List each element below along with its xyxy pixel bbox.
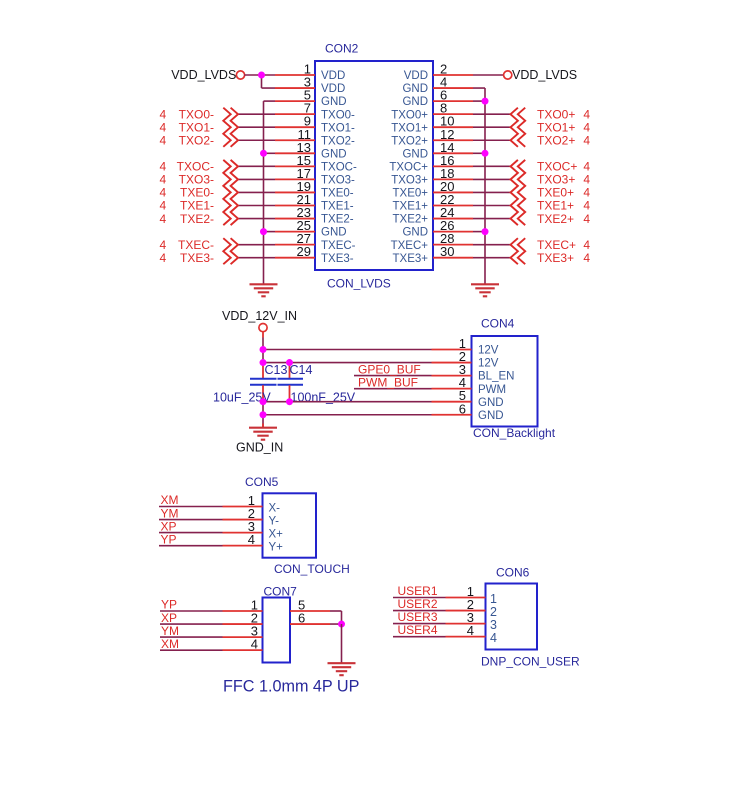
pin 14 (GND) of CON2, right stub: [402, 140, 473, 161]
pin 29 (TXE3-) of CON2, left stub: [275, 244, 354, 265]
svg-text:PWM: PWM: [478, 384, 506, 396]
wire GND bus left to pin 13: [264, 152, 276, 154]
junction GND bus right at pin 14: [482, 150, 489, 157]
svg-text:USER4: USER4: [398, 623, 438, 637]
svg-text:XM: XM: [161, 493, 179, 507]
svg-text:PWM_BUF: PWM_BUF: [358, 375, 418, 389]
connector CON2 body: [315, 61, 433, 270]
svg-text:TXO2-: TXO2-: [321, 135, 355, 147]
pin 4 of CON7: [223, 637, 263, 652]
wire net XP to CON5 pin 3: [159, 532, 223, 534]
svg-text:4: 4: [248, 532, 255, 547]
svg-text:TXE2-: TXE2-: [321, 214, 354, 226]
wire net YM to CON7 pin 3: [160, 636, 223, 638]
wire CON7 pin 5 elbow to pin 6: [330, 611, 342, 624]
pin 2 (VDD) of CON2, right stub: [404, 62, 473, 83]
wire GND bus right (pins 4,6,14,26): [473, 88, 485, 284]
pin 3 (BL_EN) of CON4: [432, 362, 515, 383]
wire GND to CON4 pin 5: [263, 401, 432, 403]
net label TXEC+ with sheet number 4: [537, 238, 590, 252]
pin 2 (12V) of CON4: [432, 349, 499, 370]
svg-text:USER2: USER2: [398, 597, 438, 611]
svg-text:TXE2-: TXE2-: [180, 212, 214, 226]
svg-text:4: 4: [160, 251, 167, 265]
junction GND bus left at pin 13: [260, 150, 267, 157]
connector CON7 body: [263, 598, 291, 663]
svg-text:2: 2: [490, 605, 497, 619]
pin 9 (TXO1-) of CON2, left stub: [275, 114, 355, 135]
pin 10 (TXO1+) of CON2, right stub: [391, 114, 473, 135]
svg-text:CON_Backlight: CON_Backlight: [473, 426, 556, 440]
pin 12 (TXO2+) of CON2, right stub: [391, 127, 473, 148]
power port VDD_LVDS (right): [504, 68, 577, 82]
wire net TXEC- to CON2: [238, 244, 275, 246]
wire net YP to CON5 pin 4: [159, 545, 223, 547]
svg-text:TXE2+: TXE2+: [393, 214, 429, 226]
wire net TXO3- to CON2: [238, 178, 275, 180]
net label TXO3+ with sheet number 4: [537, 173, 590, 187]
svg-text:TXE0+: TXE0+: [537, 186, 574, 200]
svg-text:Y+: Y+: [269, 542, 284, 554]
off-page chevron port group TXOC+..TXE2+: [511, 160, 518, 225]
wire net USER3 to CON6 pin 3: [393, 623, 446, 625]
off-page chevron port group TXO0+/TXO1+/TXO2+: [511, 108, 518, 147]
pin 2 of CON7: [223, 611, 263, 626]
pin 6 (GND) of CON2, right stub: [402, 88, 473, 109]
svg-text:TXO0+: TXO0+: [391, 109, 428, 121]
svg-text:VDD: VDD: [321, 83, 345, 95]
wire 12V to CON4 pin 2: [263, 362, 432, 364]
junction GND bus right at pin 6: [482, 98, 489, 105]
svg-text:TXOC+: TXOC+: [389, 161, 428, 173]
power port VDD_LVDS (left): [171, 68, 244, 82]
svg-text:4: 4: [583, 133, 590, 147]
pin 6 of CON7: [290, 611, 330, 626]
svg-text:GND_IN: GND_IN: [236, 441, 283, 455]
pin 5 (GND) of CON4: [432, 388, 504, 409]
pin 4 (PWM) of CON4: [432, 375, 507, 396]
ground symbol CON7: [328, 663, 356, 675]
svg-text:4: 4: [160, 107, 167, 121]
pin 30 (TXE3+) of CON2, right stub: [393, 244, 473, 265]
pin 1 of CON7: [223, 598, 263, 613]
svg-text:TXO1-: TXO1-: [179, 120, 214, 134]
wire net TXOC+ to CON2: [473, 165, 511, 167]
svg-text:GND: GND: [478, 410, 504, 422]
wire net XP to CON7 pin 2: [160, 623, 223, 625]
wire elbow VDD_LVDS to CON2 pin 3: [262, 75, 276, 88]
svg-text:TXO0-: TXO0-: [179, 107, 214, 121]
wire GND bus left (pins 5,13,25): [264, 101, 276, 284]
svg-text:4: 4: [583, 238, 590, 252]
net label TXE3+ with sheet number 4: [537, 251, 590, 265]
svg-text:4: 4: [251, 637, 258, 652]
svg-text:4: 4: [490, 631, 497, 645]
svg-text:TXE2+: TXE2+: [537, 212, 574, 226]
svg-text:4: 4: [583, 160, 590, 174]
connector CON4 body: [472, 336, 538, 427]
svg-text:TXE1-: TXE1-: [180, 199, 214, 213]
pin 1 (X-) of CON5: [223, 493, 281, 515]
svg-text:TXE0-: TXE0-: [321, 188, 354, 200]
junction node VDD_LVDS left: [258, 72, 265, 79]
wire net TXO2- to CON2: [238, 139, 275, 141]
svg-text:YM: YM: [161, 506, 179, 520]
svg-text:TXO0-: TXO0-: [321, 109, 355, 121]
svg-text:CON5: CON5: [245, 475, 279, 489]
svg-text:4: 4: [160, 238, 167, 252]
svg-text:4: 4: [583, 173, 590, 187]
svg-text:VDD_LVDS: VDD_LVDS: [512, 68, 577, 82]
svg-text:VDD_LVDS: VDD_LVDS: [171, 68, 236, 82]
svg-text:GND: GND: [402, 148, 428, 160]
net label TXE2- with sheet number 4: [160, 212, 215, 226]
wire net TXO2+ to CON2: [473, 139, 511, 141]
svg-text:12V: 12V: [478, 345, 499, 357]
wire net TXE3+ to CON2: [473, 257, 511, 259]
wire CON7 junction to ground: [341, 624, 343, 663]
net label TXO1+ with sheet number 4: [537, 120, 590, 134]
svg-text:4: 4: [583, 186, 590, 200]
svg-text:GPE0_BUF: GPE0_BUF: [358, 362, 421, 376]
svg-text:TXO2-: TXO2-: [179, 133, 214, 147]
pin 18 (TXO3+) of CON2, right stub: [391, 166, 473, 187]
pin 8 (TXO0+) of CON2, right stub: [391, 101, 473, 122]
connector CON5 body: [263, 493, 317, 557]
net label TXO0+ with sheet number 4: [537, 107, 590, 121]
wire net YP to CON7 pin 1: [160, 610, 223, 612]
wire VDD_LVDS to CON2 pin 1: [244, 74, 275, 76]
junction GND bus pin5 row: [260, 398, 267, 405]
net label TXOC+ with sheet number 4: [537, 160, 590, 174]
wire net PWM_BUF to CON4 pin 4: [354, 388, 432, 390]
junction C14 top: [286, 359, 293, 366]
svg-text:4: 4: [583, 120, 590, 134]
svg-text:TXO1-: TXO1-: [321, 122, 355, 134]
wire 12V to CON4 pin 1: [263, 349, 432, 351]
wire net TXE2- to CON2: [238, 218, 275, 220]
svg-text:C14: C14: [290, 363, 313, 377]
wire net TXO1- to CON2: [238, 126, 275, 128]
wire CON2 pin 2 to VDD_LVDS right: [473, 74, 504, 76]
svg-text:4: 4: [160, 120, 167, 134]
svg-text:4: 4: [160, 133, 167, 147]
svg-text:XM: XM: [161, 637, 179, 651]
svg-text:TXE0+: TXE0+: [393, 188, 429, 200]
svg-text:4: 4: [583, 107, 590, 121]
svg-text:TXO0+: TXO0+: [537, 107, 575, 121]
wire net GPE0_BUF to CON4 pin 3: [354, 375, 432, 377]
svg-text:4: 4: [160, 160, 167, 174]
net label TXO1- with sheet number 4: [160, 120, 215, 134]
svg-text:FFC 1.0mm 4P UP: FFC 1.0mm 4P UP: [223, 678, 359, 696]
svg-text:GND: GND: [402, 96, 428, 108]
pin 7 (TXO0-) of CON2, left stub: [275, 101, 355, 122]
net label TXE1+ with sheet number 4: [537, 199, 590, 213]
pin 1 of CON6: [446, 584, 498, 606]
wire net TXO0- to CON2: [238, 113, 275, 115]
svg-text:GND: GND: [478, 397, 504, 409]
svg-text:GND: GND: [402, 227, 428, 239]
svg-text:CON6: CON6: [496, 566, 530, 580]
junction GND bus right at pin 26: [482, 228, 489, 235]
wire net TXOC- to CON2: [238, 165, 275, 167]
pin 28 (TXEC+) of CON2, right stub: [391, 231, 473, 252]
svg-text:4: 4: [583, 212, 590, 226]
wire net TXE1+ to CON2: [473, 205, 511, 207]
svg-text:3: 3: [490, 618, 497, 632]
pin 16 (TXOC+) of CON2, right stub: [389, 153, 473, 174]
svg-text:VDD: VDD: [321, 70, 345, 82]
svg-text:30: 30: [440, 244, 454, 259]
svg-text:TXEC+: TXEC+: [391, 240, 429, 252]
svg-text:4: 4: [160, 212, 167, 226]
pin 5 (GND) of CON2, left stub: [275, 88, 347, 109]
svg-text:TXE1+: TXE1+: [537, 199, 574, 213]
svg-text:XP: XP: [161, 611, 177, 625]
net label TXO2- with sheet number 4: [160, 133, 215, 147]
pin 20 (TXE0+) of CON2, right stub: [393, 179, 473, 200]
net label TXO2+ with sheet number 4: [537, 133, 590, 147]
svg-text:1: 1: [490, 592, 497, 606]
svg-text:TXO1+: TXO1+: [391, 122, 428, 134]
svg-text:TXE3+: TXE3+: [537, 251, 574, 265]
net label TXE1- with sheet number 4: [160, 199, 215, 213]
pin 4 (Y+) of CON5: [223, 532, 284, 554]
junction GND bus left at pin 25: [260, 228, 267, 235]
wire net TXO1+ to CON2: [473, 126, 511, 128]
pin 3 of CON7: [223, 624, 263, 639]
svg-text:TXOC+: TXOC+: [537, 160, 577, 174]
wire net TXE3- to CON2: [238, 257, 275, 259]
junction 12V bus pin2 row: [260, 359, 267, 366]
svg-text:TXEC-: TXEC-: [178, 238, 214, 252]
wire net YM to CON5 pin 2: [159, 519, 223, 521]
wire net TXE1- to CON2: [238, 205, 275, 207]
svg-text:CON_TOUCH: CON_TOUCH: [274, 562, 350, 576]
net label TXO3- with sheet number 4: [160, 173, 215, 187]
pin 11 (TXO2-) of CON2, left stub: [275, 127, 355, 148]
pin 4 of CON6: [446, 623, 498, 645]
off-page chevron port group TXOC-..TXE2-: [231, 160, 238, 225]
wire GND to CON4 pin 6: [263, 414, 432, 416]
svg-text:29: 29: [297, 244, 311, 259]
junction C14 bottom: [286, 398, 293, 405]
svg-text:X-: X-: [269, 503, 281, 515]
pin 1 (12V) of CON4: [432, 336, 499, 357]
svg-text:GND: GND: [321, 227, 347, 239]
svg-text:4: 4: [160, 186, 167, 200]
pin 23 (TXE2-) of CON2, left stub: [275, 205, 354, 226]
net label TXE3- with sheet number 4: [160, 251, 215, 265]
pin 26 (GND) of CON2, right stub: [402, 218, 473, 239]
junction 12V bus pin1 row: [260, 346, 267, 353]
ground symbol GND_IN: [249, 424, 277, 440]
svg-text:TXE3-: TXE3-: [180, 251, 214, 265]
pin 19 (TXE0-) of CON2, left stub: [275, 179, 354, 200]
pin 5 of CON7: [290, 598, 330, 613]
svg-text:CON7: CON7: [264, 585, 298, 599]
wire net USER1 to CON6 pin 1: [393, 597, 446, 599]
svg-text:CON2: CON2: [325, 42, 359, 56]
pin 6 (GND) of CON4: [432, 401, 504, 422]
pin 24 (TXE2+) of CON2, right stub: [393, 205, 473, 226]
wire net XM to CON5 pin 1: [159, 506, 223, 508]
svg-text:TXO3-: TXO3-: [179, 173, 214, 187]
svg-text:12V: 12V: [478, 358, 499, 370]
pin 27 (TXEC-) of CON2, left stub: [275, 231, 356, 252]
svg-text:TXO3-: TXO3-: [321, 175, 355, 187]
wire net XM to CON7 pin 4: [160, 649, 223, 651]
connector CON6 body: [486, 584, 538, 650]
svg-text:VDD_12V_IN: VDD_12V_IN: [222, 309, 297, 323]
net label TXEC- with sheet number 4: [160, 238, 215, 252]
wire net TXE2+ to CON2: [473, 218, 511, 220]
pin 15 (TXOC-) of CON2, left stub: [275, 153, 357, 174]
svg-text:TXE1-: TXE1-: [321, 201, 354, 213]
svg-text:TXEC-: TXEC-: [321, 240, 356, 252]
pin 25 (GND) of CON2, left stub: [275, 218, 347, 239]
svg-text:USER1: USER1: [398, 584, 438, 598]
svg-text:4: 4: [583, 251, 590, 265]
svg-text:TXE0-: TXE0-: [180, 186, 214, 200]
power port VDD_12V_IN: [222, 309, 297, 332]
svg-text:USER3: USER3: [398, 610, 438, 624]
pin 3 of CON6: [446, 610, 498, 632]
svg-text:BL_EN: BL_EN: [478, 371, 514, 383]
svg-text:TXO2+: TXO2+: [391, 135, 428, 147]
pin 3 (VDD) of CON2, left stub: [275, 75, 345, 96]
pin 1 (VDD) of CON2, left stub: [275, 62, 345, 83]
svg-text:TXO1+: TXO1+: [537, 120, 575, 134]
svg-text:TXO3+: TXO3+: [537, 173, 575, 187]
svg-text:Y-: Y-: [269, 516, 280, 528]
net label TXE0+ with sheet number 4: [537, 186, 590, 200]
svg-text:TXO2+: TXO2+: [537, 133, 575, 147]
svg-text:YP: YP: [161, 598, 177, 612]
off-page chevron port group TXO0-/TXO1-/TXO2-: [231, 108, 238, 147]
net label TXOC- with sheet number 4: [160, 160, 215, 174]
svg-text:4: 4: [160, 173, 167, 187]
svg-text:4: 4: [583, 199, 590, 213]
net label TXO0- with sheet number 4: [160, 107, 215, 121]
wire net USER4 to CON6 pin 4: [393, 636, 446, 638]
pin 13 (GND) of CON2, left stub: [275, 140, 347, 161]
svg-text:TXO3+: TXO3+: [391, 175, 428, 187]
pin 21 (TXE1-) of CON2, left stub: [275, 192, 354, 213]
net label TXE0- with sheet number 4: [160, 186, 215, 200]
svg-text:X+: X+: [269, 529, 284, 541]
svg-text:VDD: VDD: [404, 70, 428, 82]
svg-text:4: 4: [467, 623, 474, 638]
svg-text:CON_LVDS: CON_LVDS: [327, 277, 391, 291]
ground symbol left of CON2: [250, 284, 278, 296]
capacitor C14: [278, 363, 304, 402]
wire net TXEC+ to CON2: [473, 244, 511, 246]
pin 3 (X+) of CON5: [223, 519, 284, 541]
svg-text:GND: GND: [321, 96, 347, 108]
wire net TXO0+ to CON2: [473, 113, 511, 115]
svg-text:TXEC+: TXEC+: [537, 238, 576, 252]
svg-text:TXE3+: TXE3+: [393, 253, 429, 265]
off-page chevron port group TXEC+/TXE3+: [511, 238, 518, 264]
svg-text:6: 6: [459, 401, 466, 416]
svg-text:DNP_CON_USER: DNP_CON_USER: [481, 655, 580, 669]
svg-text:TXE1+: TXE1+: [393, 201, 429, 213]
wire net TXE0+ to CON2: [473, 191, 511, 193]
pin 2 of CON6: [446, 597, 498, 619]
pin 4 (GND) of CON2, right stub: [402, 75, 473, 96]
svg-text:YP: YP: [161, 532, 177, 546]
svg-text:XP: XP: [161, 519, 177, 533]
pin 2 (Y-) of CON5: [223, 506, 280, 528]
off-page chevron port group TXEC-/TXE3-: [231, 238, 238, 264]
svg-text:6: 6: [298, 611, 305, 626]
net label TXE2+ with sheet number 4: [537, 212, 590, 226]
wire net USER2 to CON6 pin 2: [393, 610, 446, 612]
junction CON7 pins 5/6: [338, 621, 345, 628]
svg-text:YM: YM: [161, 624, 179, 638]
svg-text:GND: GND: [321, 148, 347, 160]
pin 17 (TXO3-) of CON2, left stub: [275, 166, 355, 187]
svg-text:GND: GND: [402, 83, 428, 95]
svg-text:C13: C13: [265, 363, 288, 377]
svg-text:TXOC-: TXOC-: [177, 160, 214, 174]
capacitor C13: [250, 363, 277, 402]
svg-text:TXOC-: TXOC-: [321, 161, 357, 173]
ground symbol right of CON2: [471, 284, 499, 296]
wire net TXE0- to CON2: [238, 191, 275, 193]
junction GND bus pin6 row: [260, 411, 267, 418]
svg-text:4: 4: [160, 199, 167, 213]
svg-text:CON4: CON4: [481, 317, 515, 331]
pin 22 (TXE1+) of CON2, right stub: [393, 192, 473, 213]
svg-text:TXE3-: TXE3-: [321, 253, 354, 265]
wire GND bus left to pin 25: [264, 231, 276, 233]
wire VDD_12V bus vertical: [262, 332, 264, 428]
wire net TXO3+ to CON2: [473, 178, 511, 180]
